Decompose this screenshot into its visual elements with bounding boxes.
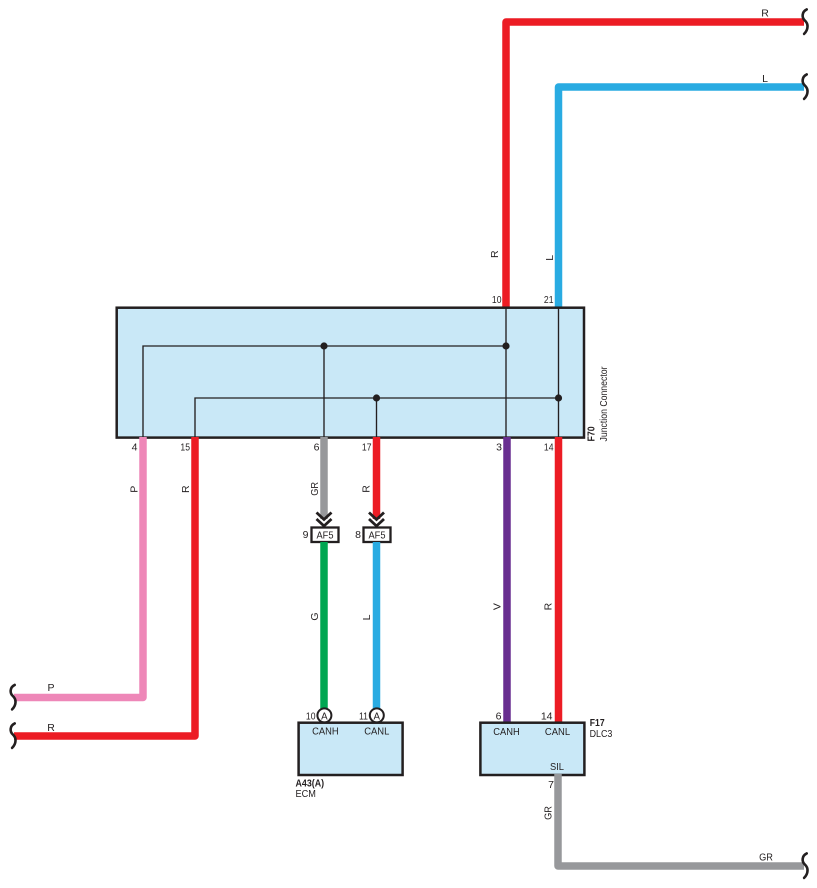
wire R (F70 pin 15 to left break) [14, 437, 195, 736]
svg-text:CANH: CANH [312, 726, 339, 738]
arrow chevrons into AF5 (pin 8) [369, 513, 384, 527]
svg-text:9: 9 [303, 529, 309, 541]
svg-text:14: 14 [544, 441, 554, 453]
junction connector F70 box [117, 308, 584, 438]
junction dot lower bus at pin 17 [373, 394, 380, 401]
svg-text:ECM: ECM [296, 788, 316, 800]
svg-text:GR: GR [309, 482, 321, 496]
svg-text:10: 10 [492, 294, 502, 306]
F70 internal wire pin 21 to pin 14 vertical [558, 308, 560, 437]
wire R (F70 pin 14 to DLC3 pin 14) [555, 437, 563, 723]
svg-text:P: P [47, 682, 54, 694]
connector ring A (ECM pin 10) [317, 708, 331, 722]
connector ring A (ECM pin 11) [370, 708, 384, 722]
F70 internal wire pin 6 vertical [323, 346, 325, 437]
svg-text:R: R [47, 722, 55, 734]
svg-text:DLC3: DLC3 [590, 728, 613, 740]
svg-text:CANH: CANH [493, 726, 520, 738]
svg-text:R: R [489, 250, 501, 258]
svg-text:F70: F70 [586, 426, 598, 441]
break symbol (left, pink wire) [11, 685, 16, 710]
svg-text:R: R [360, 485, 372, 493]
wire P (F70 pin 4 to left break) [14, 437, 143, 698]
svg-text:R: R [761, 8, 769, 20]
svg-text:17: 17 [362, 441, 372, 453]
wire GR (DLC3 pin 7 to right break) [558, 774, 804, 866]
svg-text:V: V [492, 603, 504, 610]
svg-text:3: 3 [496, 441, 502, 453]
wire L top (junction F70 pin 21 to right break) [559, 87, 805, 309]
svg-text:Junction Connector: Junction Connector [598, 366, 610, 441]
svg-text:L: L [762, 73, 768, 85]
svg-text:P: P [128, 486, 140, 493]
svg-text:GR: GR [543, 806, 555, 820]
F70 internal wire pin 10 to pin 3 vertical [505, 308, 507, 437]
wire V (F70 pin 3 to DLC3 pin 6) [503, 437, 511, 723]
wire L (AF5 to ECM pin 11) [373, 542, 381, 709]
svg-text:A: A [321, 712, 328, 723]
break symbol (bottom right, gray wire) [803, 853, 808, 878]
F70 internal wire pin 17 vertical [376, 398, 378, 437]
svg-text:6: 6 [314, 441, 320, 453]
junction dot upper bus at pin 10/3 [502, 342, 509, 349]
svg-text:14: 14 [541, 710, 553, 722]
break symbol (top right, red wire) [803, 9, 808, 34]
svg-text:AF5: AF5 [369, 530, 386, 542]
svg-text:GR: GR [759, 852, 773, 864]
junction dot upper bus at pin 6 [320, 342, 327, 349]
svg-text:11: 11 [359, 710, 368, 722]
DLC3 box F17 [480, 723, 584, 775]
svg-text:21: 21 [544, 294, 554, 306]
break symbol (right, blue wire) [803, 74, 808, 99]
svg-text:R: R [542, 602, 554, 610]
svg-text:7: 7 [548, 779, 554, 791]
svg-text:10: 10 [306, 710, 316, 722]
svg-text:G: G [309, 613, 321, 621]
svg-text:SIL: SIL [550, 761, 564, 773]
F70 internal bus wire lower horizontal [195, 398, 559, 437]
svg-text:A: A [374, 712, 381, 723]
arrow chevrons into AF5 (pin 9) [317, 513, 332, 527]
connector AF5 box (pin 9) [312, 528, 339, 543]
svg-text:R: R [180, 485, 192, 493]
svg-text:CANL: CANL [364, 726, 389, 738]
F70 internal bus wire upper horizontal [143, 346, 506, 437]
break symbol (left, red wire) [11, 723, 16, 748]
svg-text:CANL: CANL [545, 726, 570, 738]
junction dot lower bus at pin 21/14 [555, 394, 562, 401]
svg-text:L: L [361, 614, 373, 620]
svg-text:6: 6 [496, 710, 502, 722]
wire G (AF5 to ECM pin 10) [320, 542, 328, 709]
connector AF5 box (pin 8) [364, 528, 391, 543]
svg-text:AF5: AF5 [317, 530, 334, 542]
wire GR (F70 pin 6 to AF5) [320, 437, 328, 519]
wire R top (junction F70 pin 10 to right break) [506, 22, 804, 309]
svg-text:4: 4 [132, 441, 138, 453]
wire R (F70 pin 17 to AF5) [373, 437, 381, 519]
ECM box A43(A) [299, 723, 403, 775]
svg-text:15: 15 [180, 441, 190, 453]
svg-text:L: L [544, 255, 556, 261]
svg-text:8: 8 [355, 529, 361, 541]
